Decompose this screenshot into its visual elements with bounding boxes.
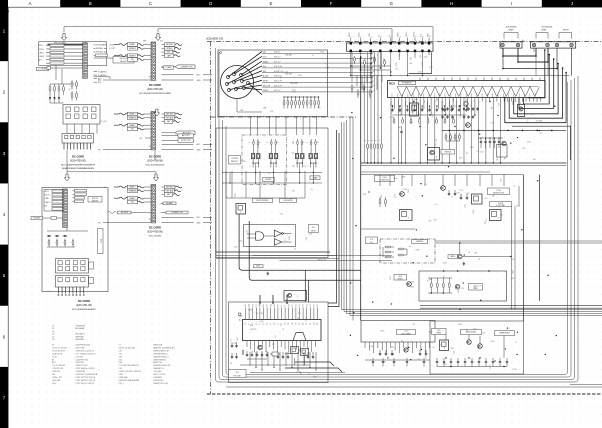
svg-text:P14: P14: [303, 304, 305, 307]
svg-text:REAR R: REAR R: [129, 54, 136, 57]
svg-text:R142: R142: [443, 363, 447, 365]
svg-text:IC335: IC335: [460, 114, 462, 118]
svg-text:1K: 1K: [513, 186, 515, 188]
svg-text:P. CONT: P. CONT: [109, 48, 115, 50]
svg-text:WHT/BLR: WHT/BLR: [166, 44, 174, 46]
svg-text:C136: C136: [491, 123, 495, 125]
audio transistors: [467, 340, 472, 345]
svg-text:R: R: [249, 142, 251, 143]
svg-text:RST: RST: [278, 304, 280, 307]
DC cord 4 hatch pins: [58, 287, 60, 294]
driver left bold verticals to bus: [239, 214, 361, 270]
AUX connector box 1: [500, 42, 522, 48]
diode bank D block1: [49, 95, 51, 97]
svg-text:Q40: Q40: [437, 330, 440, 332]
svg-text:330: 330: [240, 319, 242, 322]
svg-text:L19: L19: [312, 188, 314, 191]
capacitor C att: [267, 272, 269, 274]
svg-text:C6: C6: [52, 339, 54, 341]
svg-text:INSTRUCTION: INSTRUCTION: [493, 193, 505, 195]
svg-text:L205: L205: [409, 63, 413, 65]
svg-text:: C652/PH7CH wDE2/62H A: : C652/PH7CH wDE2/62H A: [75, 373, 98, 376]
svg-text:2.2K: 2.2K: [460, 190, 463, 192]
svg-text:L154: L154: [267, 173, 271, 175]
mid field rail 130: [442, 129, 566, 131]
svg-text:YEL: YEL: [149, 146, 152, 148]
svg-text:: C7N7 1HN/8 pr LN2/7H: : C7N7 1HN/8 pr LN2/7H: [75, 368, 96, 370]
long column wires to lower rail: [390, 102, 392, 164]
IC2 right sub boxes: [291, 347, 299, 354]
DC cord 4 connector grid B: [56, 276, 89, 288]
wire feed to DC cord 4: [66, 150, 68, 174]
svg-text:P13: P13: [306, 304, 308, 307]
svg-text:C498L/2EE: C498L/2EE: [119, 377, 129, 379]
connector strip CN: [151, 112, 156, 150]
svg-text:IC393: IC393: [241, 161, 245, 163]
svg-text:C4/6: C4/6: [52, 383, 56, 385]
capacitor C eq out: [463, 262, 465, 264]
top connector right hook wire: [409, 52, 432, 73]
svg-text:uPD 78C: uPD 78C: [250, 329, 257, 331]
svg-text:4.7K: 4.7K: [478, 285, 481, 287]
DC cord 4 connector strip: [63, 189, 68, 227]
mid section inner verticals: [379, 175, 381, 187]
svg-text:10: 10: [430, 35, 432, 37]
svg-text:: C7N7 16/379/-2 LN2/7 B: : C7N7 16/379/-2 LN2/7 B: [75, 380, 96, 382]
svg-text:X2: X2: [277, 323, 279, 325]
svg-text:IC101: IC101: [473, 209, 475, 213]
svg-text:2.2K: 2.2K: [382, 361, 385, 363]
SMPS resistors: [430, 278, 432, 283]
svg-text:R216: R216: [390, 276, 392, 280]
svg-text:C36: C36: [398, 127, 401, 129]
MUTE CONTROL label: [253, 199, 273, 203]
left ruler bar: [0, 0, 8, 61]
svg-text:C91: C91: [500, 214, 503, 216]
svg-text:D215: D215: [363, 194, 367, 196]
resistor bank R block1: [49, 84, 51, 87]
svg-text:C7H/2Q 47D-1E/L 13H-18/5: C7H/2Q 47D-1E/L 13H-18/5: [119, 371, 141, 373]
svg-text:22K: 22K: [450, 106, 452, 109]
svg-text:SI_AMP/NT: SI_AMP/NT: [98, 74, 107, 77]
IC2 top pins: [245, 308, 247, 320]
svg-text:R: R: [278, 142, 280, 143]
svg-text:47u: 47u: [458, 136, 461, 138]
svg-text:C2: C2: [52, 328, 54, 330]
mid field cap cluster low: [480, 138, 482, 140]
svg-text:100: 100: [420, 55, 422, 58]
svg-text:C/MH/87 E/7LL/4P: C/MH/87 E/7LL/4P: [153, 383, 169, 385]
svg-text:R338: R338: [512, 101, 514, 105]
IC small box Q group b: [518, 105, 525, 117]
svg-text:7-SEG DRI: 7-SEG DRI: [380, 180, 389, 182]
svg-text:: C227 H8: : C227 H8: [75, 356, 83, 358]
svg-text:D304: D304: [512, 270, 514, 274]
gate wires: [247, 234, 274, 238]
svg-text:C/MH/27E/9E/LL: C/MH/27E/9E/LL: [153, 359, 166, 361]
svg-text:D82: D82: [429, 221, 432, 223]
svg-text:Q340: Q340: [466, 193, 470, 195]
svg-text:2.2K: 2.2K: [465, 205, 467, 208]
svg-text:D148: D148: [289, 236, 291, 240]
svg-text:SPD L: SPD L: [45, 191, 50, 193]
audio section box: [430, 321, 524, 374]
svg-text:C197: C197: [247, 230, 249, 234]
audio section ICs: [440, 340, 449, 351]
svg-text:2.2K: 2.2K: [292, 191, 295, 193]
svg-text:POWER IC: POWER IC: [402, 83, 413, 85]
svg-text:E-VOL MUTE: E-VOL MUTE: [283, 200, 292, 202]
RCA IC inner pin stubs: [391, 94, 393, 98]
IC2 chip body: [243, 320, 322, 341]
svg-text:VERBLS: VERBLS: [129, 48, 137, 50]
svg-text:0.1: 0.1: [527, 119, 529, 121]
svg-text:C7S 7T-2/8 E/W: C7S 7T-2/8 E/W: [52, 365, 65, 367]
svg-text:L8: L8: [474, 100, 476, 102]
DC cord 4 right labels: [73, 190, 75, 192]
wide label row: [162, 132, 176, 134]
left label rows: [119, 113, 129, 115]
IC2 section box: [229, 302, 329, 383]
DC2 audio below comps: [404, 348, 408, 352]
SMP label: [448, 255, 458, 259]
svg-text:330: 330: [492, 196, 495, 198]
link wires cords to PCB: [203, 75, 212, 80]
svg-text:IC137: IC137: [360, 59, 362, 63]
svg-text:D165: D165: [450, 348, 454, 350]
svg-text:P00: P00: [317, 322, 319, 325]
svg-text:C4: C4: [52, 331, 54, 333]
svg-text:1K: 1K: [520, 103, 522, 105]
svg-text:AUX-BRK(B): AUX-BRK(B): [542, 26, 553, 29]
svg-text:KEY: KEY: [295, 322, 297, 325]
svg-text:2.2K: 2.2K: [426, 356, 428, 359]
svg-text:SPARELA: SPARELA: [129, 189, 138, 192]
EQ resistors: [385, 246, 391, 248]
svg-text:4080R/3080RC/3080RA/3080RG: 4080R/3080RC/3080RA/3080RG: [62, 167, 95, 170]
EQ box: [380, 239, 435, 263]
AUX wires down: [503, 48, 536, 56]
svg-text:22K: 22K: [422, 62, 424, 65]
svg-text:IC384: IC384: [298, 75, 302, 77]
transistor Q7: [400, 192, 405, 197]
svg-text:: C64/C958: : C64/C958: [75, 362, 84, 364]
bold rail 163: [361, 162, 567, 164]
AUX connector pins: [501, 43, 504, 46]
svg-text:: C7C 794/99 pr LN2/27 D: : C7C 794/99 pr LN2/27 D: [75, 353, 96, 355]
svg-text:C39: C39: [454, 106, 457, 108]
svg-text:UPE R: UPE R: [39, 49, 45, 51]
capacitor pairs mid field: [442, 107, 444, 109]
svg-text:LINE L: LINE L: [45, 198, 50, 200]
svg-text:C2 5/1-1 5 2/8 2/8: C2 5/1-1 5 2/8 2/8: [52, 347, 66, 349]
svg-text:D136: D136: [414, 99, 418, 101]
svg-text:: CN65P6FW-E2(7): : CN65P6FW-E2(7): [75, 345, 91, 347]
STANDBY label: [254, 265, 264, 268]
svg-text:P10: P10: [245, 322, 247, 325]
DC cord 4 resistor row: [48, 239, 50, 241]
right label rows: [162, 113, 165, 115]
svg-text:SYS CONT: SYS CONT: [233, 375, 241, 377]
top connector resistor drops: [354, 56, 356, 58]
svg-text:P12: P12: [310, 304, 312, 307]
svg-text:SI_AMP/NT: SI_AMP/NT: [98, 70, 107, 73]
Q40 label box: [432, 329, 447, 335]
svg-text:ORY/BLA: ORY/BLA: [166, 189, 174, 192]
transistor Q mid2: [502, 141, 506, 145]
svg-text:0.022: 0.022: [511, 278, 515, 280]
svg-text:A7-2: A7-2: [52, 361, 56, 364]
svg-text:1K: 1K: [451, 197, 453, 199]
svg-text:L170: L170: [461, 194, 463, 198]
relay box block1: [63, 105, 100, 125]
svg-text:4.7K: 4.7K: [293, 91, 296, 93]
svg-text:Q319: Q319: [429, 332, 433, 334]
svg-text:IC8: IC8: [370, 239, 373, 241]
svg-text:4.7K: 4.7K: [391, 111, 393, 114]
svg-text:C/MH/2E/97E/4LL/L: C/MH/2E/97E/4LL/L: [153, 356, 169, 358]
C.C mute label: [37, 67, 49, 70]
svg-text:D68: D68: [498, 103, 500, 106]
IC box with 2 d: [490, 210, 502, 221]
BUS vertical label: [98, 229, 104, 254]
svg-text:L323: L323: [237, 337, 239, 341]
svg-text:IC156: IC156: [259, 313, 263, 315]
PCB outline dash-dot left: [210, 42, 212, 395]
svg-text:VDD: VDD: [274, 304, 276, 307]
svg-text:47u: 47u: [540, 133, 543, 135]
PCB outline dashed bottom: [207, 393, 602, 395]
top connector box: [347, 43, 434, 51]
wires relay to connector 2: [66, 124, 68, 134]
svg-text:A7: A7: [52, 358, 54, 361]
svg-text:2.2K: 2.2K: [522, 148, 525, 150]
svg-text:D143: D143: [418, 72, 422, 74]
svg-text:C311: C311: [306, 237, 308, 241]
svg-text:100: 100: [491, 107, 493, 110]
svg-text:0.1: 0.1: [275, 335, 277, 337]
resistor pair below Q7: [379, 197, 381, 200]
svg-text:R1: R1: [69, 89, 71, 91]
svg-text:1K: 1K: [308, 373, 310, 375]
op-amp RCA power IC box: [388, 81, 546, 98]
svg-text:IC135: IC135: [390, 117, 394, 119]
svg-text:BLU: BLU: [160, 41, 163, 43]
svg-text:L195: L195: [309, 233, 313, 235]
mid caps cluster 2: [448, 190, 450, 192]
arrow to DC cord 2: [155, 34, 160, 41]
svg-text:: C7N/CHCK wsLN2/7 B: : C7N/CHCK wsLN2/7 B: [75, 350, 95, 352]
svg-text:0.022: 0.022: [480, 152, 484, 154]
svg-text:0.1: 0.1: [283, 328, 285, 330]
svg-text:R374: R374: [375, 57, 377, 61]
svg-text:D179: D179: [490, 365, 492, 369]
R label row under rail: [445, 133, 447, 135]
svg-text:TEL MUTE: TEL MUTE: [33, 218, 40, 220]
svg-text:1S6: 1S6: [474, 253, 477, 255]
DC cord 4 outline box: [42, 188, 108, 292]
junction dot pepper: [480, 300, 481, 301]
svg-text:C/MH/2E/9E/4LL/L: C/MH/2E/9E/4LL/L: [153, 353, 168, 355]
svg-text:P11: P11: [314, 304, 316, 307]
svg-text:L68: L68: [483, 332, 486, 334]
svg-text:IC302: IC302: [297, 371, 301, 373]
svg-text:2.2K: 2.2K: [449, 139, 452, 141]
svg-text:4.7K: 4.7K: [293, 141, 295, 144]
svg-text:10u: 10u: [292, 166, 295, 168]
svg-text:* TEMP4WD: * TEMP4WD: [75, 326, 86, 328]
DC cord 3 left lower rows: [145, 137, 151, 139]
svg-text:VDD: VDD: [288, 322, 290, 325]
IC2 bottom pins: [246, 341, 248, 348]
DC cord 1 right labels: [94, 44, 96, 46]
power small box: [497, 145, 508, 158]
svg-text:VCL: VCL: [131, 202, 134, 204]
svg-text:100: 100: [533, 159, 536, 161]
svg-text:1K: 1K: [466, 330, 468, 332]
DC cord 4 mid wires: [66, 227, 68, 232]
svg-text:SMPWR IN BUS: SMPWR IN BUS: [499, 333, 509, 335]
svg-text:LINE R: LINE R: [39, 56, 45, 58]
IC10-B 7-CONT SMT label: [490, 202, 512, 207]
svg-text:- 13D-1E/L: - 13D-1E/L: [153, 371, 162, 373]
svg-text:R: R: [365, 140, 367, 141]
IC box with 2 a: [400, 210, 413, 221]
svg-text:KDC-4180/41RG/3180/31RG/38BR: KDC-4180/41RG/3180/31RG/38BR: [139, 93, 171, 95]
right resistor column block1: [71, 80, 73, 82]
svg-text:IC312: IC312: [473, 329, 477, 331]
svg-text:WHT/BLB: WHT/BLB: [166, 187, 174, 189]
SMPS section box: [419, 271, 507, 301]
svg-text:P16: P16: [296, 304, 298, 307]
wire bottom rails to page edge: [570, 384, 602, 386]
svg-text:GND: GND: [197, 149, 202, 151]
svg-text:: C234/1EPA: : C234/1EPA: [75, 370, 86, 373]
svg-text:C7: C7: [119, 345, 121, 347]
svg-text:MUTE: MUTE: [349, 32, 351, 37]
svg-text:Q24: Q24: [233, 343, 236, 345]
svg-text:P. CON: P. CON: [101, 121, 107, 123]
svg-text:X1: X1: [281, 305, 283, 307]
svg-text:22K: 22K: [497, 158, 499, 161]
svg-text:C119: C119: [500, 178, 502, 182]
svg-text:Q305: Q305: [239, 316, 243, 318]
DC2 audio section box: [361, 321, 435, 343]
svg-text:D306: D306: [453, 98, 455, 102]
DC cord 1 battery label: [113, 57, 134, 64]
svg-text:C7SC/E2 13F: C7SC/E2 13F: [52, 368, 64, 370]
svg-text:R: R: [307, 142, 309, 143]
svg-text:P13: P13: [256, 322, 258, 325]
top connector downward wires: [350, 52, 352, 75]
svg-text:R48: R48: [459, 157, 462, 159]
svg-text:IC357: IC357: [292, 89, 296, 91]
logic gate cluster box: [244, 225, 296, 247]
svg-text:C98: C98: [119, 356, 122, 358]
svg-text:4W94 AVR 7: 4W94 AVR 7: [75, 333, 85, 336]
driver transistor groups: [253, 139, 255, 141]
svg-text:D: D: [209, 1, 212, 6]
svg-text:2: 2: [444, 348, 445, 350]
svg-text:IC333: IC333: [396, 63, 398, 67]
svg-text:C9: C9: [230, 363, 232, 365]
svg-text:Q292: Q292: [313, 376, 317, 378]
mid section bottom rail: [361, 228, 415, 230]
svg-text:REAR: REAR: [509, 29, 515, 32]
wire feed bus to front panel inner: [158, 29, 392, 43]
svg-text:C36: C36: [398, 112, 401, 114]
svg-text:IC77: IC77: [272, 344, 275, 346]
svg-text:CN3 (6P): CN3 (6P): [285, 55, 292, 57]
IC2 feed bold verticals: [259, 295, 261, 303]
svg-text:Y-CONNECT CON: Y-CONNECT CON: [171, 212, 183, 214]
DC2 audio bottom pins: [364, 342, 366, 348]
driver dash-dot inner box: [242, 135, 287, 185]
svg-text:VCL: VCL: [131, 129, 134, 131]
svg-text:0.1: 0.1: [479, 258, 481, 260]
svg-text:2.2K: 2.2K: [395, 68, 398, 70]
svg-text:R: R: [379, 140, 381, 141]
svg-text:R: R: [369, 140, 371, 141]
RVE label box: [441, 150, 455, 155]
svg-text:L397: L397: [511, 259, 515, 261]
transistor box Q5: [428, 148, 440, 161]
svg-text:TEL MUTE: TEL MUTE: [121, 212, 128, 214]
svg-text:0.1: 0.1: [435, 204, 437, 206]
RCA IC top pins: [419, 78, 421, 81]
svg-text:C1: C1: [52, 326, 54, 328]
svg-text:IC334: IC334: [491, 341, 495, 343]
svg-text:D347: D347: [381, 194, 383, 198]
IC small box Q group a: [410, 103, 419, 116]
svg-text:C53: C53: [461, 288, 464, 290]
svg-text:D356: D356: [380, 330, 384, 332]
svg-text:0.1: 0.1: [401, 341, 403, 343]
svg-text:22K: 22K: [303, 166, 306, 168]
svg-text:C225: C225: [527, 142, 531, 144]
SMPWR IN BUS label: [495, 331, 515, 336]
svg-text:JK: JK: [104, 187, 106, 189]
left component columns under connector: [351, 76, 353, 83]
DC cord 1 lower pin rows: [94, 71, 98, 73]
svg-text:C61: C61: [52, 374, 55, 376]
svg-text:IC189: IC189: [320, 52, 324, 54]
tel mute label: [31, 217, 43, 220]
svg-text:GRN: GRN: [143, 41, 146, 43]
svg-text:D168: D168: [408, 189, 410, 193]
svg-text:YEL: YEL: [149, 76, 152, 78]
svg-text:TEMP4WD: TEMP4WD: [75, 336, 85, 338]
svg-text:ILL-: ILL-: [389, 34, 391, 37]
svg-text:DC CORD: DC CORD: [78, 299, 90, 303]
svg-text:P.CONT CON: P.CONT CON: [181, 140, 190, 142]
circled plus node: [464, 102, 468, 106]
svg-text:100: 100: [439, 345, 442, 347]
svg-text:SPARELA: SPARELA: [129, 116, 138, 119]
svg-text:R: R: [267, 142, 269, 143]
RCA IC bottom pins: [390, 98, 392, 102]
svg-text:VR2: VR2: [399, 276, 402, 278]
svg-text:H: H: [450, 1, 453, 6]
svg-text:Q144: Q144: [410, 287, 414, 289]
svg-text:: C7N7 15/77/4-2 LN2/7 B: : C7N7 15/77/4-2 LN2/7 B: [75, 377, 96, 379]
svg-text:C327: C327: [436, 138, 438, 142]
svg-text:CN3 (9P): CN3 (9P): [285, 74, 292, 76]
svg-text:B: B: [89, 1, 92, 6]
svg-text:REAR 2: REAR 2: [129, 124, 135, 127]
svg-text:SCK: SCK: [310, 322, 312, 325]
svg-text:KDC-4080RV/4080RWV: KDC-4080RV/4080RWV: [72, 309, 96, 311]
